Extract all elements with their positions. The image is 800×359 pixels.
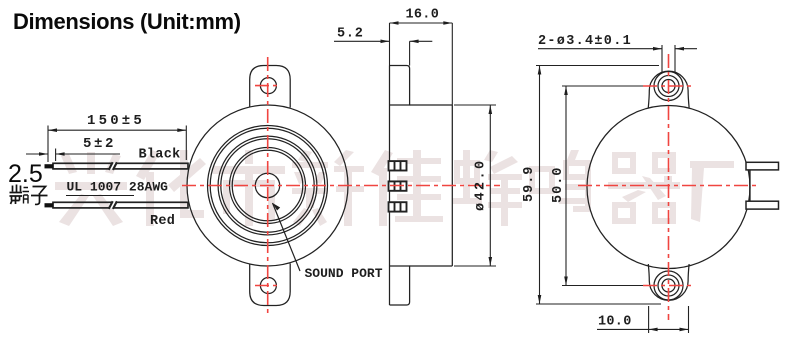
side view front face: [389, 66, 391, 306]
dimension 16.0: [390, 23, 453, 105]
back top ear hole crossline: [643, 85, 694, 87]
black wire body: [53, 162, 188, 170]
front view vertical centerline: [267, 57, 269, 315]
side view terminal block 2: [389, 181, 407, 190]
svg-text:50.0: 50.0: [551, 167, 566, 203]
svg-text:10.0: 10.0: [598, 315, 632, 330]
back view vertical centerline: [668, 54, 670, 320]
back top mounting ear: [648, 71, 689, 107]
black wire tinned tip: [45, 164, 54, 168]
side view bottom ear tab: [390, 266, 410, 305]
svg-text:Dimensions (Unit:mm): Dimensions (Unit:mm): [13, 9, 241, 34]
svg-text:2.5: 2.5: [8, 160, 43, 188]
side view terminal block 3: [389, 202, 407, 211]
watermark 兴化市新佳蜂鸣器厂: [55, 150, 734, 226]
front bottom mounting ear: [250, 264, 291, 306]
dimension 2-φ3.4±0.1: [538, 45, 697, 72]
svg-text:16.0: 16.0: [406, 8, 440, 23]
dimension 5±2: [26, 149, 120, 162]
dimension φ42.0: [454, 105, 496, 266]
svg-text:5.2: 5.2: [337, 27, 364, 42]
side view back face: [451, 105, 453, 266]
front top ear hole crossline: [255, 85, 281, 87]
red wire tinned tip: [45, 203, 54, 207]
back view body circle: [587, 106, 750, 269]
svg-text:150±5: 150±5: [87, 113, 145, 129]
horizontal centerline front+side: [182, 185, 500, 187]
SOUND PORT leader: [273, 203, 301, 271]
label 端子 (terminal) drawn as strokes: [10, 185, 48, 205]
back view flat between pins: [749, 170, 751, 201]
dimension 5.2: [334, 41, 432, 65]
svg-text:UL 1007 28AWG: UL 1007 28AWG: [67, 180, 169, 195]
back top ear rings: [662, 80, 675, 93]
svg-text:2-ø3.4±0.1: 2-ø3.4±0.1: [538, 34, 632, 49]
front bottom ear hole crossline: [255, 285, 281, 287]
svg-text:SOUND PORT: SOUND PORT: [305, 266, 383, 281]
front top ear hole: [260, 78, 276, 94]
back view terminal pin top: [746, 162, 779, 170]
red centerlines: [182, 54, 759, 320]
svg-text:Black: Black: [139, 148, 181, 163]
char 子: [31, 187, 48, 205]
back bottom mounting ear: [648, 264, 689, 300]
dimension 50.0: [562, 86, 646, 286]
back view terminal pin bottom: [746, 201, 779, 209]
dimension 150±5: [48, 126, 186, 163]
char 端: [10, 185, 30, 205]
side view top ear tab: [390, 66, 410, 106]
front top mounting ear: [250, 66, 291, 108]
front ring pair B: [218, 136, 317, 235]
front ring pair C: [230, 148, 306, 224]
dimension 10.0: [597, 306, 689, 333]
front bottom ear hole: [260, 278, 276, 294]
underline under UL 1007: [66, 195, 134, 197]
svg-text:ø42.0: ø42.0: [474, 158, 489, 211]
back bottom ear hole crossline: [643, 285, 694, 287]
dimension 59.9: [536, 66, 661, 305]
side view cylinder bottom: [410, 265, 453, 267]
back bottom ear rings: [662, 279, 675, 292]
back view horizontal centerline: [578, 185, 759, 187]
svg-text:Red: Red: [150, 214, 175, 229]
front sound hole: [255, 173, 279, 197]
side view cylinder top: [410, 104, 453, 106]
svg-text:5±2: 5±2: [83, 136, 116, 152]
front view outer body circle: [187, 105, 348, 266]
svg-text:59.9: 59.9: [522, 166, 537, 202]
red wire body: [53, 201, 188, 209]
side view terminal block 1: [389, 161, 407, 170]
front ring pair A: [208, 126, 328, 246]
